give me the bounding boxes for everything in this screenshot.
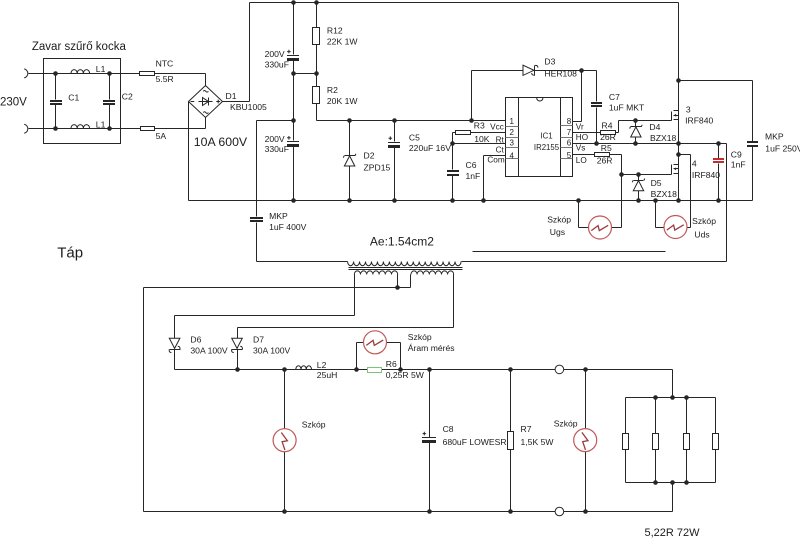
svg-text:Ugs: Ugs: [550, 227, 565, 237]
svg-text:8: 8: [567, 117, 572, 126]
svg-text:5,22R 72W: 5,22R 72W: [645, 527, 701, 539]
svg-text:D1: D1: [226, 91, 237, 101]
svg-text:230V: 230V: [0, 96, 27, 108]
svg-text:Ct: Ct: [496, 146, 505, 155]
svg-text:Com: Com: [487, 155, 504, 164]
svg-text:26R: 26R: [600, 132, 616, 142]
svg-text:Uds: Uds: [694, 229, 709, 239]
svg-text:BZX18: BZX18: [651, 189, 677, 199]
svg-text:6: 6: [567, 138, 572, 147]
svg-text:4: 4: [509, 152, 514, 161]
svg-text:680uF LOWESR: 680uF LOWESR: [443, 437, 507, 447]
svg-text:R2: R2: [327, 85, 338, 95]
svg-text:IRF840: IRF840: [692, 170, 720, 180]
svg-text:Szkóp: Szkóp: [554, 418, 578, 428]
svg-text:HER108: HER108: [544, 68, 577, 78]
svg-text:220uF 16V: 220uF 16V: [409, 143, 451, 153]
svg-text:D6: D6: [190, 334, 201, 344]
svg-text:R6: R6: [386, 359, 397, 369]
svg-text:Vr: Vr: [576, 122, 584, 131]
svg-text:L1: L1: [96, 119, 106, 129]
svg-text:R12: R12: [327, 26, 343, 36]
svg-text:D2: D2: [364, 150, 375, 160]
svg-text:25uH: 25uH: [317, 370, 338, 380]
svg-text:Vcc: Vcc: [490, 123, 504, 132]
svg-text:1,5K 5W: 1,5K 5W: [521, 437, 555, 447]
svg-text:D4: D4: [649, 122, 660, 132]
svg-text:IC1: IC1: [540, 132, 552, 141]
svg-text:C7: C7: [609, 92, 620, 102]
svg-text:3: 3: [686, 105, 691, 115]
svg-text:L1: L1: [96, 64, 106, 74]
svg-text:D7: D7: [253, 334, 264, 344]
svg-text:330uF: 330uF: [265, 59, 289, 69]
svg-text:30A 100V: 30A 100V: [190, 345, 228, 355]
svg-text:D5: D5: [651, 178, 662, 188]
svg-text:200V: 200V: [265, 134, 285, 144]
svg-text:4: 4: [692, 158, 697, 168]
svg-text:KBU1005: KBU1005: [230, 102, 267, 112]
svg-text:2: 2: [509, 128, 514, 137]
svg-text:0,25R 5W: 0,25R 5W: [386, 370, 425, 380]
svg-text:5: 5: [567, 151, 572, 160]
svg-text:C1: C1: [68, 92, 79, 102]
svg-text:Vs: Vs: [576, 144, 586, 153]
svg-text:Táp: Táp: [57, 245, 83, 262]
svg-text:C6: C6: [466, 160, 477, 170]
svg-text:R3: R3: [474, 120, 485, 130]
svg-text:3: 3: [509, 138, 514, 147]
svg-text:1uF MKT: 1uF MKT: [609, 102, 645, 112]
svg-text:ZPD15: ZPD15: [364, 163, 391, 173]
svg-text:330uF: 330uF: [265, 144, 289, 154]
svg-text:C5: C5: [409, 133, 420, 143]
svg-text:10A 600V: 10A 600V: [194, 135, 248, 149]
svg-text:1uF 400V: 1uF 400V: [269, 222, 307, 232]
svg-text:C2: C2: [122, 92, 133, 102]
svg-text:22K 1W: 22K 1W: [327, 37, 358, 47]
svg-text:LO: LO: [576, 156, 587, 165]
svg-text:Szkóp: Szkóp: [547, 215, 571, 225]
svg-text:26R: 26R: [597, 156, 613, 166]
svg-text:1uF 250V: 1uF 250V: [765, 143, 800, 153]
svg-text:5A: 5A: [156, 131, 167, 141]
svg-text:5.5R: 5.5R: [156, 74, 174, 84]
svg-text:30A 100V: 30A 100V: [253, 345, 291, 355]
svg-text:BZX18: BZX18: [650, 133, 676, 143]
svg-text:Ae:1.54cm2: Ae:1.54cm2: [370, 235, 434, 249]
svg-text:MKP: MKP: [269, 211, 288, 221]
svg-text:R5: R5: [601, 143, 612, 153]
svg-text:IR2155: IR2155: [534, 143, 560, 152]
svg-text:HO: HO: [576, 133, 588, 142]
svg-text:Szkóp: Szkóp: [408, 332, 432, 342]
svg-text:7: 7: [567, 128, 572, 137]
svg-text:1nF: 1nF: [466, 171, 481, 181]
svg-text:C8: C8: [443, 424, 454, 434]
svg-text:200V: 200V: [265, 49, 285, 59]
svg-text:Szkóp: Szkóp: [302, 420, 326, 430]
svg-text:NTC: NTC: [156, 59, 174, 69]
svg-text:Zavar szűrő kocka: Zavar szűrő kocka: [32, 41, 127, 53]
svg-text:1nF: 1nF: [731, 160, 746, 170]
svg-text:R4: R4: [602, 121, 613, 131]
svg-text:L2: L2: [317, 360, 327, 370]
svg-text:IRF840: IRF840: [685, 115, 713, 125]
svg-text:D3: D3: [544, 56, 555, 66]
svg-text:C9: C9: [731, 150, 742, 160]
svg-text:10K: 10K: [474, 134, 490, 144]
svg-text:1: 1: [509, 117, 514, 126]
svg-text:Szkóp: Szkóp: [692, 216, 716, 226]
svg-text:R7: R7: [521, 424, 532, 434]
svg-text:20K 1W: 20K 1W: [327, 96, 358, 106]
svg-text:Áram mérés: Áram mérés: [408, 343, 455, 353]
svg-text:MKP: MKP: [765, 132, 784, 142]
svg-text:Rt: Rt: [496, 135, 505, 144]
